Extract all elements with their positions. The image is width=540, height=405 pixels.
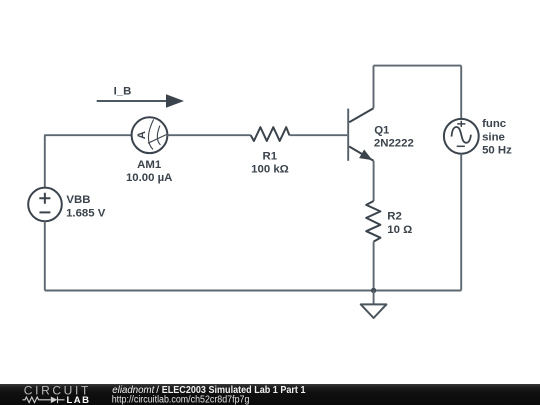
svg-text:I_B: I_B (114, 86, 132, 98)
footer logo schematic (23, 397, 65, 404)
svg-text:R1: R1 (263, 151, 278, 163)
transistor Q1 (348, 108, 373, 161)
wire: VBB bottom to bottom rail (44, 221, 46, 290)
wire: bottom rail (45, 290, 461, 292)
wire: R1 to Q1 base (289, 134, 347, 136)
svg-text:1.685 V: 1.685 V (66, 207, 106, 219)
svg-text:100 kΩ: 100 kΩ (251, 164, 289, 176)
svg-text:10.00 µA: 10.00 µA (126, 172, 172, 184)
svg-text:Q1: Q1 (374, 124, 390, 136)
wire: func gen bottom (460, 154, 462, 291)
svg-text:R2: R2 (387, 211, 402, 223)
svg-text:10 Ω: 10 Ω (387, 224, 412, 236)
wire: left rail top (VBB to ammeter row) (45, 135, 132, 188)
svg-text:func: func (482, 118, 506, 130)
svg-text:VBB: VBB (66, 194, 90, 206)
resistor R1 (251, 127, 290, 141)
ground (361, 291, 387, 319)
svg-text:A: A (136, 131, 148, 139)
svg-text:http://circuitlab.com/ch52cr8d: http://circuitlab.com/ch52cr8d7fp7g (112, 395, 250, 405)
svg-text:AM1: AM1 (137, 159, 162, 171)
wire: emitter to R2 (373, 161, 375, 201)
resistor R2 (366, 201, 380, 242)
svg-text:2N2222: 2N2222 (374, 137, 414, 149)
junction node (371, 288, 376, 293)
wire: func gen top (460, 66, 462, 119)
wire: R2 to ground node (373, 242, 375, 291)
svg-text:50 Hz: 50 Hz (482, 145, 512, 157)
wire: ammeter to R1 (167, 134, 250, 136)
svg-text:LAB: LAB (67, 395, 90, 405)
current arrow I_B (97, 94, 184, 108)
voltage source VBB (28, 188, 62, 222)
wire: top rail (374, 65, 462, 67)
ammeter AM1 (132, 117, 168, 153)
svg-text:sine: sine (482, 131, 505, 143)
voltage source func gen (444, 119, 479, 154)
wire: collector up to top rail (373, 66, 375, 109)
